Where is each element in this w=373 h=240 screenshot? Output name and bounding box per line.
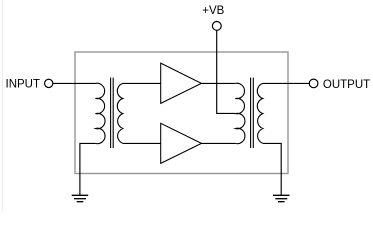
svg-text:+VB: +VB bbox=[202, 5, 224, 17]
svg-text:OUTPUT: OUTPUT bbox=[323, 79, 370, 91]
svg-text:INPUT: INPUT bbox=[6, 79, 41, 91]
